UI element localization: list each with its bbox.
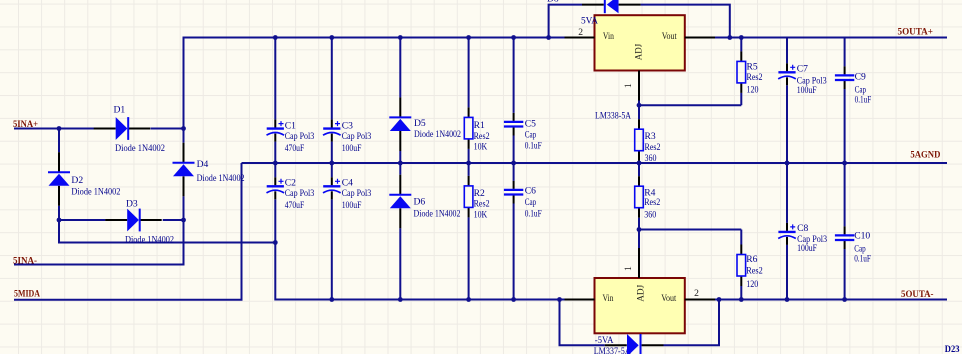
wire top protection loop left bbox=[549, 5, 582, 38]
wire D2 branch top bbox=[58, 129, 60, 153]
svg-text:Vout: Vout bbox=[661, 293, 676, 304]
svg-text:Cap: Cap bbox=[525, 130, 537, 141]
svg-text:ADJ: ADJ bbox=[634, 44, 645, 61]
svg-text:5OUTA+: 5OUTA+ bbox=[898, 27, 934, 38]
resistor R4 bbox=[635, 163, 661, 230]
svg-text:360: 360 bbox=[644, 209, 656, 220]
svg-text:10K: 10K bbox=[474, 210, 488, 221]
svg-text:R6: R6 bbox=[746, 254, 757, 265]
svg-text:D8: D8 bbox=[547, 0, 559, 5]
svg-text:LM337-5A: LM337-5A bbox=[594, 346, 631, 354]
svg-text:C4: C4 bbox=[342, 178, 353, 189]
svg-text:Res2: Res2 bbox=[474, 131, 490, 142]
svg-text:C6: C6 bbox=[525, 186, 536, 197]
resistor R1 bbox=[464, 38, 489, 164]
op-amp U2 LM337-5A bbox=[565, 248, 716, 354]
svg-text:470uF: 470uF bbox=[285, 143, 305, 154]
capacitor C2 bbox=[267, 163, 315, 243]
svg-text:Vout: Vout bbox=[662, 31, 677, 42]
svg-text:120: 120 bbox=[747, 85, 759, 96]
capacitor C3 bbox=[323, 38, 371, 164]
svg-text:C9: C9 bbox=[855, 72, 866, 83]
svg-text:Cap Pol3: Cap Pol3 bbox=[342, 188, 372, 199]
svg-text:5VA: 5VA bbox=[581, 16, 598, 27]
svg-text:Res2: Res2 bbox=[644, 197, 660, 208]
wire bridge negative bbox=[59, 220, 275, 243]
svg-text:LM338-5A: LM338-5A bbox=[595, 110, 631, 121]
svg-text:C8: C8 bbox=[797, 223, 808, 234]
svg-text:5OUTA-: 5OUTA- bbox=[901, 289, 934, 300]
svg-text:Res2: Res2 bbox=[746, 266, 763, 277]
wire 5MIDA to 5AGND rail bbox=[14, 163, 242, 300]
svg-text:Cap Pol3: Cap Pol3 bbox=[285, 131, 315, 142]
svg-text:360: 360 bbox=[645, 153, 657, 164]
svg-text:ADJ: ADJ bbox=[636, 285, 647, 302]
wire ADJ U2 node bbox=[639, 230, 741, 249]
svg-text:0.1uF: 0.1uF bbox=[525, 208, 542, 219]
junction dots bridge and ADJ nodes bbox=[57, 103, 642, 245]
svg-text:C3: C3 bbox=[342, 120, 353, 131]
svg-text:D6: D6 bbox=[414, 196, 426, 207]
diode D5 bbox=[389, 38, 461, 164]
wire bottom protection loop right bbox=[664, 300, 720, 346]
svg-text:D3: D3 bbox=[126, 199, 138, 210]
wire D3 row right bbox=[163, 219, 184, 221]
svg-text:100uF: 100uF bbox=[797, 85, 817, 96]
junction dots negative rail bbox=[329, 297, 847, 302]
wire D4 branch top bbox=[183, 129, 185, 143]
svg-text:Cap: Cap bbox=[525, 197, 537, 208]
svg-text:Diode 1N4002: Diode 1N4002 bbox=[115, 143, 165, 154]
resistor R6 bbox=[737, 230, 763, 300]
svg-text:Res2: Res2 bbox=[474, 199, 490, 210]
wire D2 branch bottom bbox=[58, 206, 60, 220]
svg-text:5INA+: 5INA+ bbox=[13, 119, 38, 130]
diode D8 (clipped at top) bbox=[547, 0, 641, 13]
junction dots top rail bbox=[273, 35, 744, 40]
wire ADJ U1 node bbox=[639, 101, 741, 106]
svg-text:100uF: 100uF bbox=[342, 200, 362, 211]
svg-text:C10: C10 bbox=[854, 230, 870, 241]
wire D4 branch bottom bbox=[183, 196, 185, 220]
resistor R5 bbox=[737, 38, 763, 106]
wire D3 row left bbox=[59, 219, 105, 221]
capacitor C9 bbox=[835, 38, 871, 164]
svg-text:Diode 1N4002: Diode 1N4002 bbox=[197, 173, 245, 184]
svg-text:2: 2 bbox=[578, 27, 583, 38]
wire 5OUTA- rail bbox=[715, 299, 947, 301]
svg-text:C5: C5 bbox=[525, 119, 536, 130]
wire D1 cathode to top rail bbox=[151, 38, 566, 129]
svg-text:D23: D23 bbox=[945, 344, 960, 354]
junction dots 5AGND rail bbox=[273, 161, 847, 166]
svg-text:Cap Pol3: Cap Pol3 bbox=[342, 131, 372, 142]
svg-text:120: 120 bbox=[746, 279, 758, 290]
capacitor C8 bbox=[778, 163, 827, 300]
svg-text:Diode 1N4002: Diode 1N4002 bbox=[125, 234, 174, 245]
capacitor C10 bbox=[835, 163, 871, 300]
capacitor C1 bbox=[267, 38, 315, 164]
svg-text:R1: R1 bbox=[474, 120, 485, 131]
svg-text:C7: C7 bbox=[797, 63, 808, 74]
svg-text:D5: D5 bbox=[414, 118, 426, 129]
svg-text:Diode 1N4002: Diode 1N4002 bbox=[71, 186, 120, 197]
wire 5OUTA+ rail bbox=[715, 37, 947, 39]
resistor R3 bbox=[635, 105, 661, 164]
wire top protection loop right bbox=[641, 5, 730, 38]
svg-text:5INA-: 5INA- bbox=[13, 256, 37, 267]
svg-text:R2: R2 bbox=[474, 188, 485, 199]
svg-text:D2: D2 bbox=[71, 175, 83, 186]
svg-text:0.1uF: 0.1uF bbox=[855, 94, 872, 105]
svg-text:Res2: Res2 bbox=[747, 72, 763, 83]
svg-text:R3: R3 bbox=[645, 131, 656, 142]
svg-text:470uF: 470uF bbox=[285, 200, 305, 211]
op-amp U1 LM338-5A bbox=[565, 15, 716, 121]
wire 5INA- lead bbox=[14, 220, 184, 265]
svg-text:2: 2 bbox=[694, 288, 699, 299]
wire 5AGND rail bbox=[242, 162, 948, 164]
svg-text:Diode 1N4002: Diode 1N4002 bbox=[414, 208, 461, 219]
svg-text:5MIDA: 5MIDA bbox=[14, 289, 40, 300]
svg-text:Vin: Vin bbox=[603, 293, 614, 304]
svg-text:100uF: 100uF bbox=[342, 143, 362, 154]
svg-text:R5: R5 bbox=[747, 61, 758, 72]
svg-text:1: 1 bbox=[623, 266, 634, 271]
capacitor C4 bbox=[323, 163, 371, 300]
diode D4 bbox=[173, 143, 245, 220]
svg-text:5AGND: 5AGND bbox=[910, 150, 940, 161]
svg-text:Diode 1N4002: Diode 1N4002 bbox=[414, 129, 461, 140]
svg-text:100uF: 100uF bbox=[797, 243, 817, 254]
svg-text:C1: C1 bbox=[285, 120, 296, 131]
capacitor C6 bbox=[504, 163, 542, 300]
wire negative rail left bbox=[275, 243, 565, 300]
svg-text:D1: D1 bbox=[114, 104, 126, 115]
svg-text:-5VA: -5VA bbox=[595, 335, 614, 346]
svg-text:Vin: Vin bbox=[603, 31, 614, 42]
capacitor C5 bbox=[504, 38, 542, 164]
wire 5INA+ lead bbox=[14, 128, 94, 130]
resistor R2 bbox=[464, 163, 489, 300]
svg-text:1: 1 bbox=[623, 83, 634, 88]
diode D2 bbox=[48, 152, 121, 220]
diode D9 (clipped at bottom) bbox=[605, 334, 664, 354]
wire bottom protection loop left bbox=[560, 300, 605, 346]
svg-text:Cap Pol3: Cap Pol3 bbox=[285, 188, 315, 199]
capacitor C7 bbox=[778, 38, 827, 164]
svg-text:Res2: Res2 bbox=[645, 142, 661, 153]
svg-text:10K: 10K bbox=[474, 142, 488, 153]
diode D1 bbox=[94, 104, 165, 154]
svg-text:0.1uF: 0.1uF bbox=[854, 254, 871, 265]
diode D6 bbox=[389, 163, 460, 300]
svg-text:D4: D4 bbox=[197, 159, 209, 170]
svg-text:C2: C2 bbox=[285, 178, 296, 189]
diode D3 bbox=[105, 199, 174, 246]
svg-text:0.1uF: 0.1uF bbox=[525, 141, 542, 152]
